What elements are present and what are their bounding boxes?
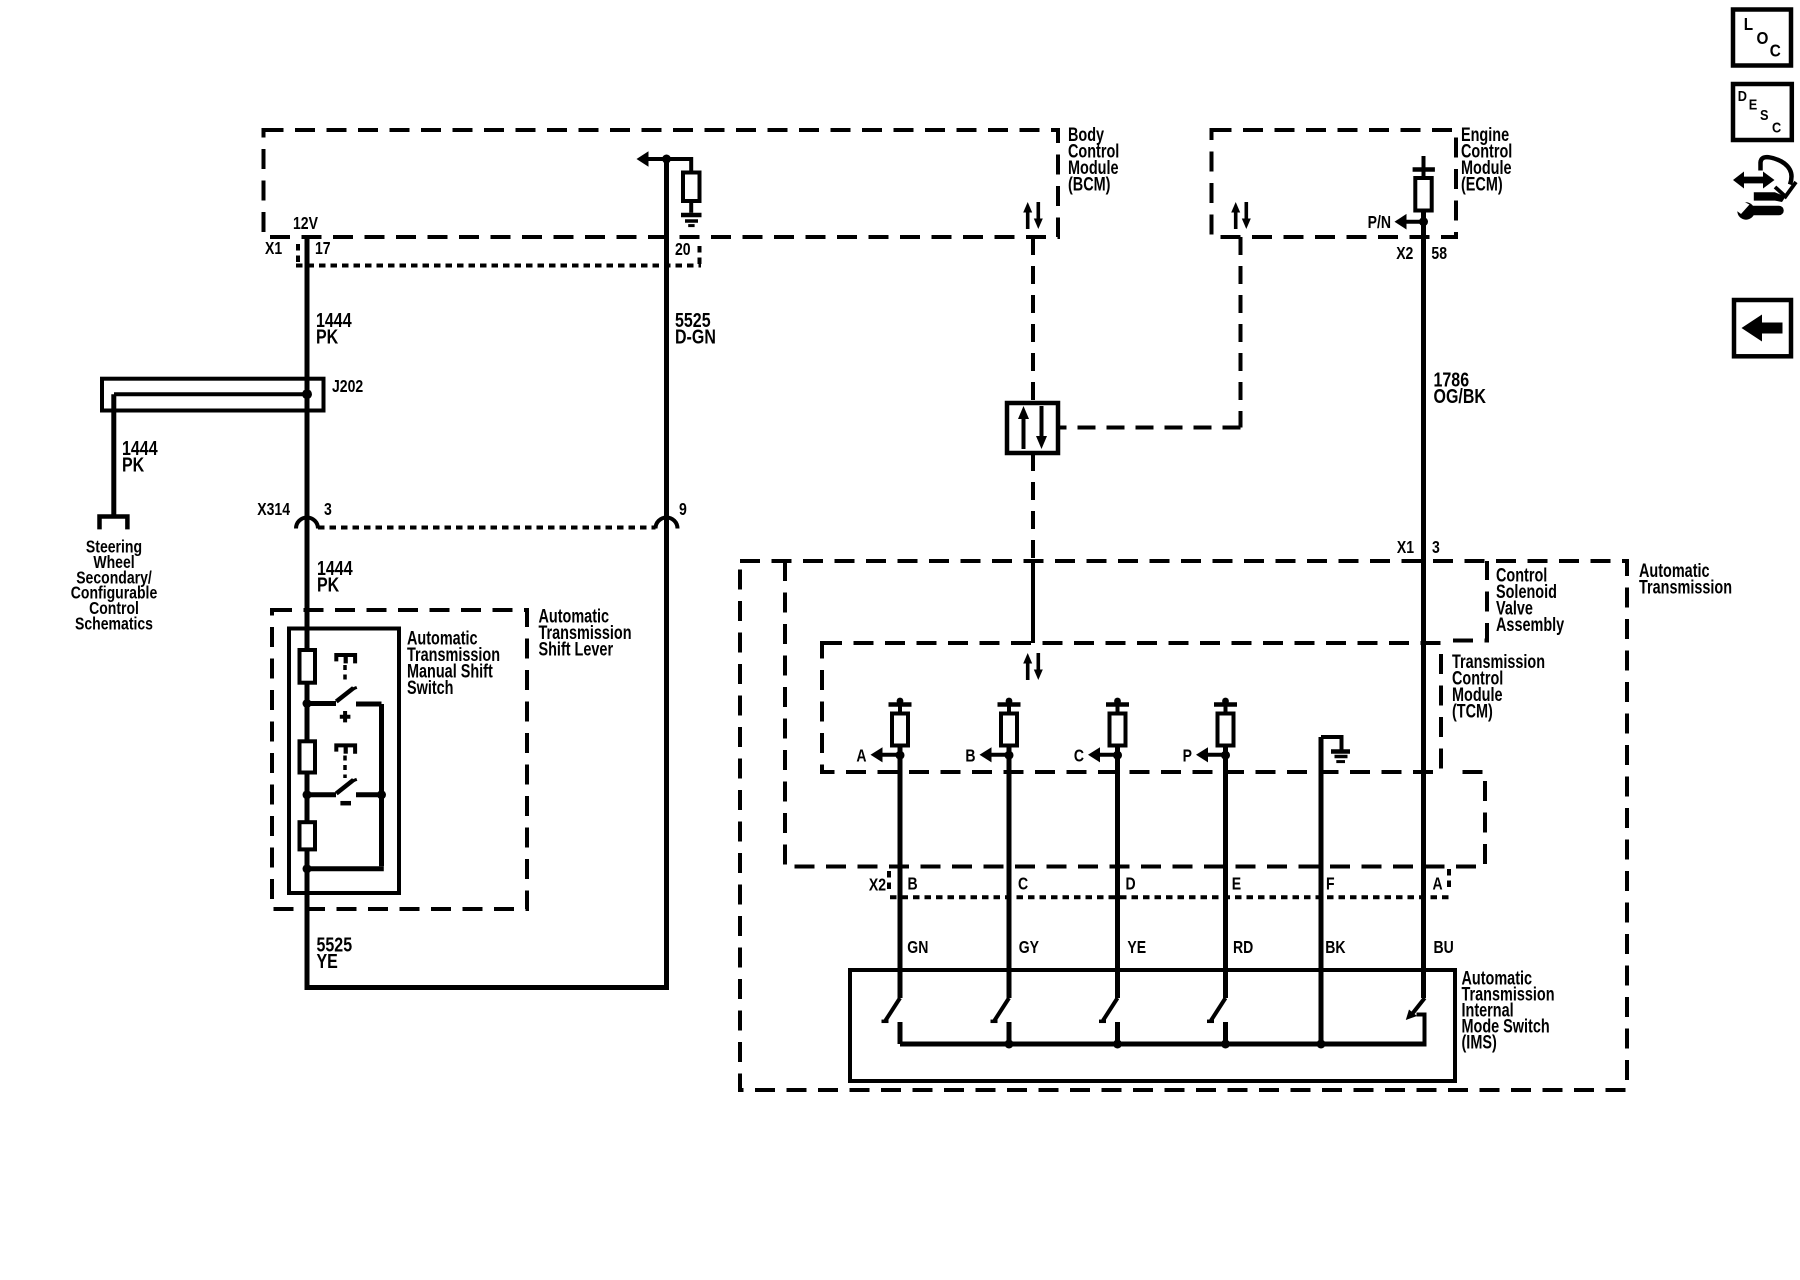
icon DESC box — [1733, 84, 1792, 140]
switch IMS A blade — [886, 998, 901, 1021]
wire switch output bus vertical — [379, 704, 384, 866]
svg-text:RD: RD — [1233, 937, 1253, 957]
resistor R1 in shift switch — [300, 650, 316, 683]
wire 1786 OG/BK from ECM pin 58 down into transmission — [1421, 211, 1426, 999]
switch S2 blade — [336, 780, 353, 794]
svg-text:C: C — [1018, 874, 1028, 894]
switch IMS P blade — [1211, 998, 1226, 1021]
resistor ECM internal pull-up — [1422, 156, 1426, 178]
connector X314 pin 3 arc — [296, 518, 318, 529]
svg-text:GN: GN — [907, 937, 928, 957]
svg-text:C: C — [1772, 118, 1781, 135]
wire switch S1 pole — [307, 701, 336, 706]
icon data link connector wrench — [1730, 157, 1797, 220]
svg-text:S: S — [1760, 106, 1769, 123]
module box ECM — [1212, 130, 1457, 237]
resistor pull-up P — [1218, 714, 1234, 746]
wire switch output bus bottom — [307, 866, 384, 871]
resistor pull-up A — [892, 714, 908, 746]
wire 5525 D-GN from bottom corner up to BCM pin 20 — [664, 159, 669, 990]
svg-text:X2: X2 — [1396, 243, 1413, 263]
svg-text:J202: J202 — [332, 376, 363, 396]
wire IMS C throw stub — [1115, 1022, 1120, 1044]
module box Automatic Transmission Shift Lever — [272, 610, 527, 909]
svg-text:C: C — [1074, 746, 1084, 766]
switch IMS C blade — [1103, 998, 1118, 1021]
wire 12V feed from BCM pin 17 down through J202 and X314 into shift switch — [305, 237, 310, 988]
svg-text:P/N: P/N — [1368, 212, 1391, 232]
switch S1 blade — [336, 688, 353, 702]
resistor BCM internal — [683, 173, 700, 202]
svg-text:L: L — [1744, 14, 1753, 34]
svg-text:C: C — [1770, 40, 1781, 60]
icon back arrow box — [1734, 300, 1791, 356]
wire IMS B throw stub — [1007, 1022, 1012, 1044]
svg-text:GY: GY — [1019, 937, 1039, 957]
svg-text:3: 3 — [324, 499, 332, 519]
wire jumper bottom run 5525 YE to 5525 D-GN — [305, 985, 667, 990]
svg-text:D: D — [1738, 87, 1747, 104]
module box Automatic Transmission outer — [740, 561, 1627, 1090]
svg-text:58: 58 — [1431, 243, 1447, 263]
splice pack J202 — [102, 379, 324, 411]
switch IMS common blade with arrow — [1413, 998, 1425, 1014]
svg-text:X314: X314 — [257, 499, 290, 519]
module box BCM — [264, 130, 1059, 237]
node junction P on bus — [1221, 1040, 1230, 1049]
node junction S2 throw on bus — [377, 790, 386, 799]
serial data symbol up-down arrows at ECM — [1231, 202, 1251, 229]
resistor R2 in shift switch — [300, 741, 316, 772]
svg-text:F: F — [1326, 874, 1335, 894]
wire IMS P throw stub — [1223, 1022, 1228, 1044]
node junction C on bus — [1113, 1040, 1122, 1049]
node junction C — [1113, 751, 1122, 760]
svg-text:BU: BU — [1434, 937, 1454, 957]
label plus sign — [340, 711, 351, 722]
arrow B output — [980, 747, 992, 762]
wire switch S1 throw to bus — [356, 702, 382, 707]
switch S1 actuator link — [343, 665, 347, 683]
wire solenoid C output — [1115, 746, 1120, 999]
icon LOC box — [1733, 10, 1791, 66]
node junction at BCM ground arrow — [662, 155, 671, 164]
svg-text:A: A — [1433, 874, 1443, 894]
connector X2 row of TCM — [890, 895, 1450, 899]
ground BCM internal — [689, 201, 693, 213]
svg-text:E: E — [1232, 874, 1242, 894]
switch S1 plus contact bracket — [336, 655, 355, 663]
arrow P output — [1196, 747, 1208, 762]
wire switch S2 pole — [307, 792, 336, 797]
wire serial data gateway to transmission — [1031, 453, 1035, 561]
connector X1 row of BCM — [296, 264, 701, 268]
serial data symbol up-down arrows in TCM — [1023, 653, 1043, 680]
svg-text:12V: 12V — [293, 213, 318, 233]
svg-text:5525D-GN: 5525D-GN — [675, 309, 716, 348]
wire IMS common contact tab and riser — [1417, 1015, 1425, 1045]
module box TCM — [822, 643, 1441, 772]
svg-text:X2: X2 — [869, 875, 886, 895]
connector X314 pin 9 arc — [656, 518, 678, 529]
arrow C output — [1088, 747, 1100, 762]
wire serial data BCM to gateway box — [1031, 237, 1035, 403]
pull-up P in TCM — [1214, 702, 1237, 707]
switch S2 minus contact bracket — [336, 745, 355, 753]
wire switch S2 throw to bus — [356, 792, 382, 797]
wire BCM internal to pull-down resistor — [667, 159, 692, 173]
wire serial data inside transmission — [1031, 561, 1035, 643]
node junction BK on bus — [1317, 1040, 1326, 1049]
svg-text:9: 9 — [679, 499, 687, 519]
pull-up B in TCM — [998, 702, 1021, 707]
resistor R3 in shift switch — [300, 822, 316, 849]
svg-text:X1: X1 — [265, 238, 282, 258]
node junction at P/N arrow — [1419, 217, 1428, 226]
svg-text:D: D — [1126, 874, 1136, 894]
resistor pull-up B — [1001, 714, 1017, 746]
wire solenoid P output — [1223, 746, 1228, 999]
serial data symbol up-down arrows in gateway box — [1018, 406, 1047, 449]
svg-text:BK: BK — [1325, 937, 1346, 957]
wire ground return F — [1319, 737, 1324, 1044]
wire solenoid B output — [1007, 746, 1012, 999]
svg-text:P: P — [1183, 746, 1193, 766]
svg-text:20: 20 — [675, 239, 691, 259]
label minus sign — [340, 801, 351, 806]
arrow P/N signal inside ECM — [1395, 214, 1407, 230]
component box Automatic Transmission Manual Shift Switch — [289, 629, 399, 894]
node junction B on bus — [1005, 1040, 1014, 1049]
wire serial data ECM branch — [1058, 237, 1241, 428]
connector X314 row — [318, 526, 656, 530]
node junction P — [1221, 751, 1230, 760]
switch S2 actuator link — [343, 756, 347, 779]
svg-text:X1: X1 — [1397, 537, 1414, 557]
svg-text:E: E — [1749, 95, 1758, 112]
arrow signal direction inside BCM — [637, 151, 649, 167]
ground TCM internal — [1321, 737, 1342, 750]
pull-up C in TCM — [1106, 702, 1129, 707]
serial data symbol up-down arrows at BCM — [1023, 202, 1043, 229]
resistor pull-up C — [1110, 714, 1126, 746]
svg-text:17: 17 — [315, 238, 331, 258]
serial data gateway box — [1007, 403, 1058, 453]
switch IMS B blade — [995, 998, 1010, 1021]
component box Control Solenoid Valve Assembly — [785, 561, 1487, 867]
svg-text:B: B — [965, 746, 975, 766]
svg-text:A: A — [856, 746, 866, 766]
arrow A output — [871, 747, 883, 762]
svg-text:O: O — [1757, 28, 1769, 48]
wire solenoid A output — [898, 746, 903, 999]
node junction S2 pole — [303, 790, 312, 799]
off-page connector fork to steering wheel schematics — [100, 517, 128, 530]
wire IMS common bus — [900, 1042, 1427, 1047]
node junction S1 pole — [303, 699, 312, 708]
node junction bus to main wire — [303, 864, 312, 873]
svg-text:3: 3 — [1432, 537, 1440, 557]
svg-text:B: B — [908, 874, 918, 894]
pull-up A in TCM — [889, 702, 912, 707]
node junction A — [896, 751, 905, 760]
component box IMS — [850, 970, 1455, 1081]
wire branch 1444 PK from J202 to steering schematics — [111, 394, 116, 516]
node junction B — [1005, 751, 1014, 760]
wire IMS A throw stub — [898, 1022, 903, 1044]
svg-text:YE: YE — [1127, 937, 1146, 957]
